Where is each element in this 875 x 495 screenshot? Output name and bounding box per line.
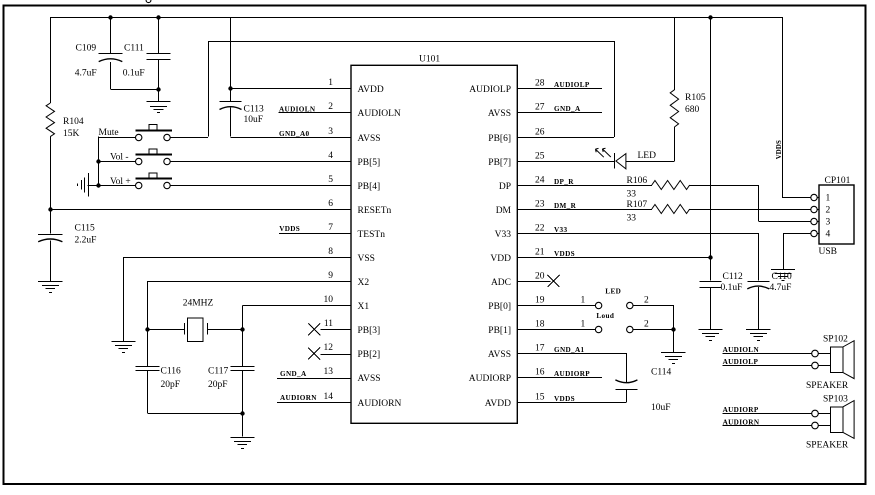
label R104 <box>63 117 84 139</box>
svg-text:PB[4]: PB[4] <box>358 182 381 192</box>
wire AUDIOLN pin 2 stub <box>279 112 352 114</box>
svg-text:GND_A1: GND_A1 <box>554 346 585 354</box>
svg-text:DP_R: DP_R <box>554 178 574 186</box>
U101 right pin names <box>469 85 512 409</box>
ground below C112 <box>698 330 722 341</box>
wire C116 bottom <box>147 371 242 414</box>
svg-text:19: 19 <box>535 296 545 306</box>
svg-text:PB[6]: PB[6] <box>488 134 511 144</box>
svg-text:PB[1]: PB[1] <box>488 326 511 336</box>
wire C109 to bottom node <box>111 62 159 90</box>
svg-text:C115: C115 <box>75 224 95 234</box>
capacitor C112 <box>699 282 721 288</box>
svg-text:LED: LED <box>638 151 657 161</box>
svg-text:SPEAKER: SPEAKER <box>806 381 849 391</box>
svg-text:AVSS: AVSS <box>488 350 511 360</box>
wire VDDS vertical <box>710 17 712 281</box>
node junction VDD/C112 <box>708 255 712 259</box>
net label LED <box>605 288 621 296</box>
wire PB1 pin 18 <box>517 329 595 331</box>
switch Vol- <box>135 149 172 165</box>
label C110 <box>772 272 792 282</box>
net label Loud <box>596 312 614 320</box>
svg-text:PB[7]: PB[7] <box>488 158 511 168</box>
svg-text:DP: DP <box>499 182 511 192</box>
speaker SP103 <box>812 401 854 439</box>
svg-text:C114: C114 <box>651 368 671 378</box>
label 2 PB0 <box>644 296 649 306</box>
wire AVDD pin 1 <box>231 88 352 90</box>
svg-text:23: 23 <box>535 200 545 210</box>
svg-text:20: 20 <box>535 272 545 282</box>
svg-text:AVSS: AVSS <box>358 374 381 384</box>
jumper circles PB1 <box>595 326 633 332</box>
svg-text:AUDIORP: AUDIORP <box>554 370 590 378</box>
svg-text:AUDIORN: AUDIORN <box>358 399 402 409</box>
svg-text:33: 33 <box>627 214 637 224</box>
svg-text:0.1uF: 0.1uF <box>123 68 145 78</box>
label SPEAKER SP102 <box>806 381 849 391</box>
wire to crystal ground <box>242 413 244 437</box>
node junction C109/rail <box>108 15 112 19</box>
svg-text:C111: C111 <box>124 43 144 53</box>
label 4.7uF C110 <box>770 283 792 293</box>
no-connect X on PB3 pin 11 <box>308 323 351 335</box>
svg-text:PB[5]: PB[5] <box>358 158 381 168</box>
capacitor C113 <box>220 88 242 109</box>
svg-text:25: 25 <box>535 152 545 162</box>
ground below C110 <box>746 330 770 341</box>
wire PB7 pin 25 to LED <box>517 161 614 163</box>
wire PB0 pin 19 <box>517 305 595 307</box>
label C115 <box>75 224 97 246</box>
wire LED to R105 <box>626 127 675 162</box>
svg-text:Vol -: Vol - <box>110 153 129 163</box>
net label AUDIORP pin16 <box>554 370 590 378</box>
wire AUDIOLP pin 28 stub <box>517 88 602 90</box>
svg-text:17: 17 <box>535 344 545 354</box>
label U101 <box>419 55 440 65</box>
label R106 <box>627 176 648 200</box>
svg-text:VDDS: VDDS <box>554 250 575 258</box>
label C109 <box>75 43 97 78</box>
wire Vol+ left <box>98 185 135 187</box>
svg-text:28: 28 <box>535 79 545 89</box>
svg-text:6: 6 <box>328 199 333 209</box>
node junction C109/C111/ground <box>156 87 160 91</box>
label Vol- <box>110 153 129 163</box>
svg-text:AUDIOLP: AUDIOLP <box>723 358 759 366</box>
svg-text:26: 26 <box>535 128 545 138</box>
wire AVSS pin 27 stub <box>517 112 602 114</box>
node junction bottom ground <box>240 411 244 415</box>
node junction RESETn/R104 <box>48 207 52 211</box>
label C112 <box>723 272 743 282</box>
svg-text:1: 1 <box>581 320 586 330</box>
U101 left pin numbers <box>324 78 334 402</box>
LED D1 <box>615 153 626 169</box>
wire C111 to ground node <box>158 59 160 101</box>
wire C112 to ground <box>710 287 712 329</box>
label 10uF C114 <box>651 403 671 413</box>
wire X2 pin 9 <box>147 281 351 366</box>
svg-text:AUDIOLN: AUDIOLN <box>279 106 316 114</box>
svg-text:1: 1 <box>328 78 333 88</box>
wire rail to C113 <box>230 17 232 88</box>
svg-text:15: 15 <box>535 393 545 403</box>
svg-text:GND_A: GND_A <box>554 105 581 113</box>
clipped text artifact at top edge <box>146 0 151 3</box>
svg-text:C116: C116 <box>161 367 181 377</box>
wire R107 to CP101 pin 2 <box>690 209 811 211</box>
svg-text:ADC: ADC <box>491 278 511 288</box>
wire RESETn pin 6 <box>50 209 351 211</box>
svg-text:AUDIOLN: AUDIOLN <box>358 109 401 119</box>
svg-text:VDDS: VDDS <box>554 395 575 403</box>
svg-text:AUDIORN: AUDIORN <box>280 394 317 402</box>
svg-text:LED: LED <box>605 288 621 296</box>
wire rail to C109 <box>110 17 112 53</box>
label C113 <box>244 104 264 125</box>
svg-text:Vol +: Vol + <box>110 177 131 187</box>
ground below jumpers <box>661 353 685 364</box>
svg-text:680: 680 <box>685 105 700 115</box>
svg-text:AUDIORN: AUDIORN <box>723 419 760 427</box>
svg-text:AUDIOLP: AUDIOLP <box>469 85 511 95</box>
svg-text:1: 1 <box>826 193 831 203</box>
svg-text:AUDIOLN: AUDIOLN <box>723 346 760 354</box>
label SPEAKER SP103 <box>806 441 849 451</box>
label Vol+ <box>110 177 131 187</box>
wire to buttons ground <box>673 329 675 352</box>
wire rail to C111 <box>158 17 160 53</box>
svg-text:13: 13 <box>324 367 334 377</box>
wire rail2 down to Mute <box>208 41 210 137</box>
wire TESTn pin 7 stub <box>279 233 351 235</box>
capacitor C111 <box>147 54 171 60</box>
label 1 PB1 <box>581 320 586 330</box>
node junction crystal right <box>240 327 244 331</box>
wire R106 to CP101 pin 3 <box>690 185 811 222</box>
svg-text:SPEAKER: SPEAKER <box>806 441 849 451</box>
svg-text:Mute: Mute <box>99 128 119 138</box>
net label GND_A <box>280 370 307 378</box>
ground below VSS <box>111 342 135 353</box>
U101 left pin names <box>358 85 402 409</box>
wire PB6 pin 26 <box>517 41 614 138</box>
wire AUDIOLP to SP102 <box>723 365 812 367</box>
resistor R107 <box>652 205 690 214</box>
svg-text:33: 33 <box>627 190 637 200</box>
net label VDDS on TESTn <box>279 225 300 233</box>
label CP101 <box>825 176 851 186</box>
ground at CP101 pin 4 <box>771 270 795 281</box>
svg-text:24: 24 <box>535 176 545 186</box>
connector CP101 body <box>819 185 854 244</box>
node junction Vol+ bus <box>96 183 100 187</box>
wire C113 to AVSS pin 3 <box>231 108 352 138</box>
capacitor C116 <box>135 367 159 371</box>
svg-text:2: 2 <box>328 102 333 112</box>
net label AUDIORP speaker <box>723 406 759 414</box>
svg-text:Loud: Loud <box>596 312 614 320</box>
wire C110 to ground <box>758 287 760 329</box>
svg-text:5: 5 <box>328 175 333 185</box>
svg-text:R105: R105 <box>685 93 706 103</box>
svg-text:R104: R104 <box>63 117 84 127</box>
no-connect X on PB2 pin 12 <box>308 348 351 360</box>
svg-text:2.2uF: 2.2uF <box>75 235 97 245</box>
svg-text:PB[3]: PB[3] <box>358 326 381 336</box>
svg-text:AUDIORP: AUDIORP <box>723 406 759 414</box>
svg-text:20pF: 20pF <box>161 380 181 390</box>
wire DP pin 24 to R106 <box>517 185 652 187</box>
label LED <box>638 151 657 161</box>
svg-text:C109: C109 <box>76 43 97 53</box>
net label GND_A pin27 <box>554 105 581 113</box>
svg-text:18: 18 <box>535 320 545 330</box>
speaker SP102 <box>812 341 854 379</box>
svg-text:AUDIORP: AUDIORP <box>469 374 511 384</box>
net label GND_A1 <box>554 346 585 354</box>
node junction C111/rail <box>156 15 160 19</box>
svg-text:20pF: 20pF <box>208 380 228 390</box>
svg-text:4: 4 <box>826 230 831 240</box>
label C111 <box>123 43 145 78</box>
wire AUDIORP to SP103 <box>723 413 812 415</box>
svg-text:SP102: SP102 <box>823 335 848 345</box>
svg-text:4.7uF: 4.7uF <box>75 68 97 78</box>
wire C117 bottom <box>242 371 244 413</box>
label C117 <box>208 367 228 390</box>
ground at Vol+ (rotated) <box>78 173 89 197</box>
svg-text:1: 1 <box>581 296 586 306</box>
wire PB1 right <box>633 329 673 331</box>
node junction VDDS vertical/rail <box>708 15 712 19</box>
net label AUDIOLN speaker <box>723 346 760 354</box>
label C116 <box>161 367 181 390</box>
node junction Vol- bus <box>96 159 100 163</box>
resistor R106 <box>652 181 690 190</box>
op-amp U101 body <box>351 65 517 423</box>
LED arrows <box>595 148 610 157</box>
svg-text:2: 2 <box>826 206 831 216</box>
capacitor C115 <box>38 235 62 242</box>
switch Vol+ <box>135 173 172 189</box>
wire VDDS to CP101 pin 1 <box>782 17 811 198</box>
net label VDDS pin21 <box>554 250 575 258</box>
svg-text:SP103: SP103 <box>823 394 848 404</box>
capacitor C117 <box>230 367 254 371</box>
label SP103 <box>823 394 848 404</box>
svg-text:11: 11 <box>324 319 333 329</box>
net label AUDIORN speaker <box>723 419 760 427</box>
label R105 <box>685 93 706 115</box>
label SP102 <box>823 335 848 345</box>
no-connect X on ADC pin 20 <box>517 275 559 287</box>
net label V33 <box>554 226 567 234</box>
svg-text:C117: C117 <box>208 367 228 377</box>
wire Vol- to PB5 pin 4 <box>170 161 351 163</box>
svg-text:0.1uF: 0.1uF <box>721 283 743 293</box>
net label DM_R <box>554 202 577 210</box>
svg-text:DM_R: DM_R <box>554 202 577 210</box>
label C114 <box>651 368 671 378</box>
wire C115 to ground <box>50 241 52 282</box>
wire CP101 pin 4 to ground <box>783 233 811 269</box>
wire VDD pin 21 <box>517 257 710 259</box>
svg-text:X2: X2 <box>358 278 370 288</box>
U101 right pin numbers <box>535 79 545 403</box>
capacitor C114 <box>615 380 637 390</box>
wire R105 to rail <box>674 17 676 90</box>
svg-text:21: 21 <box>535 248 545 258</box>
svg-text:VDDS: VDDS <box>776 140 783 159</box>
svg-text:24MHZ: 24MHZ <box>183 299 214 309</box>
wire AUDIORN to SP103 <box>723 425 812 427</box>
node junction AVDD/C113 <box>228 86 232 90</box>
wire rail to R104 <box>50 17 52 103</box>
svg-text:C113: C113 <box>244 104 264 114</box>
node junction PB0/PB1 ground <box>671 327 675 331</box>
svg-text:R106: R106 <box>627 176 648 186</box>
wire C114 to VDDS pin 15 <box>517 389 626 402</box>
wire Mute left to bus <box>98 137 135 185</box>
svg-text:27: 27 <box>535 103 545 113</box>
wire pin17 down to C114 <box>626 353 628 382</box>
label 2 PB1 <box>644 320 649 330</box>
svg-text:2: 2 <box>644 296 649 306</box>
svg-text:AVDD: AVDD <box>358 85 384 95</box>
svg-text:AVSS: AVSS <box>488 109 511 119</box>
svg-text:8: 8 <box>328 247 333 257</box>
svg-text:22: 22 <box>535 224 545 234</box>
net label VDDS vertical <box>776 140 783 159</box>
svg-text:15K: 15K <box>63 129 80 139</box>
wire R104 to C115 <box>50 137 52 234</box>
wire Mute right <box>170 137 208 139</box>
ground below C111 <box>146 102 170 113</box>
wire second rail to PB6 <box>208 41 614 43</box>
label USB <box>819 247 837 257</box>
svg-text:10uF: 10uF <box>651 403 671 413</box>
crystal Y1 24MHZ <box>147 318 242 342</box>
wire AUDIORP pin 16 stub <box>517 377 602 379</box>
wire Vol+ to PB4 pin 5 <box>170 185 351 187</box>
svg-text:R107: R107 <box>627 200 648 210</box>
svg-text:9: 9 <box>328 271 333 281</box>
wire AVSS pin 13 stub <box>277 378 351 380</box>
wire VSS pin 8 <box>123 257 351 341</box>
svg-text:USB: USB <box>819 247 837 257</box>
node junction crystal left <box>145 327 149 331</box>
switch Mute <box>135 125 172 141</box>
svg-text:3: 3 <box>826 218 831 228</box>
svg-text:4.7uF: 4.7uF <box>770 283 792 293</box>
svg-text:VSS: VSS <box>358 254 375 264</box>
svg-text:2: 2 <box>644 320 649 330</box>
svg-text:16: 16 <box>535 368 545 378</box>
svg-text:GND_A: GND_A <box>280 370 307 378</box>
svg-text:DM: DM <box>496 206 512 216</box>
wire ground to Vol+ bus <box>88 185 99 187</box>
svg-text:10uF: 10uF <box>244 115 264 125</box>
wire AUDIOLN to SP102 <box>723 353 812 355</box>
svg-text:12: 12 <box>324 343 334 353</box>
wire AUDIORN pin 14 stub <box>277 402 351 404</box>
svg-text:GND_A0: GND_A0 <box>279 130 310 138</box>
svg-text:U101: U101 <box>419 55 440 65</box>
wire Vol- left <box>98 161 135 163</box>
jumper circles PB0 <box>595 302 633 308</box>
svg-text:PB[0]: PB[0] <box>488 302 511 312</box>
label 0.1uF C112 <box>721 283 743 293</box>
svg-text:CP101: CP101 <box>825 176 851 186</box>
svg-text:C112: C112 <box>723 272 743 282</box>
wire GND_A1 pin 17 <box>517 353 626 355</box>
svg-text:VDDS: VDDS <box>279 225 300 233</box>
label Mute <box>99 128 119 138</box>
svg-text:V33: V33 <box>495 230 512 240</box>
net label GND_A0 <box>279 130 310 138</box>
label 24MHZ <box>183 299 214 309</box>
net label VDDS pin15 <box>554 395 575 403</box>
net label AUDIOLP <box>554 81 590 89</box>
resistor R105 <box>670 90 678 127</box>
wire PB0 right <box>633 305 674 329</box>
net label DP_R <box>554 178 574 186</box>
wire V33 down to C110 <box>758 233 760 281</box>
capacitor C110 <box>747 282 769 289</box>
CP101 pin numbers <box>826 193 831 239</box>
svg-text:AVSS: AVSS <box>358 134 381 144</box>
svg-text:AVDD: AVDD <box>485 399 511 409</box>
label R107 <box>627 200 648 224</box>
wire DM pin 23 to R107 <box>517 209 652 211</box>
wire VDDS top rail <box>50 17 782 19</box>
net label AUDIOLN <box>279 106 316 114</box>
CP101 pin circles <box>811 194 819 236</box>
svg-text:AUDIOLP: AUDIOLP <box>554 81 590 89</box>
net label AUDIORN <box>280 394 317 402</box>
svg-text:10: 10 <box>324 295 334 305</box>
ground below crystal <box>230 438 254 449</box>
net label AUDIOLP speaker <box>723 358 759 366</box>
wire V33 pin 22 <box>517 233 758 235</box>
label 1 PB0 <box>581 296 586 306</box>
svg-text:TESTn: TESTn <box>358 230 386 240</box>
svg-text:X1: X1 <box>358 302 370 312</box>
resistor R104 <box>46 103 54 137</box>
svg-text:PB[2]: PB[2] <box>358 350 381 360</box>
svg-text:V33: V33 <box>554 226 567 234</box>
capacitor C109 <box>99 54 123 62</box>
svg-text:7: 7 <box>328 223 333 233</box>
svg-text:3: 3 <box>328 127 333 137</box>
svg-text:14: 14 <box>324 392 334 402</box>
svg-text:4: 4 <box>328 151 333 161</box>
wire X1 pin 10 <box>242 305 351 366</box>
ground below C115 <box>38 282 62 293</box>
svg-text:VDD: VDD <box>490 254 511 264</box>
svg-text:RESETn: RESETn <box>358 206 392 216</box>
